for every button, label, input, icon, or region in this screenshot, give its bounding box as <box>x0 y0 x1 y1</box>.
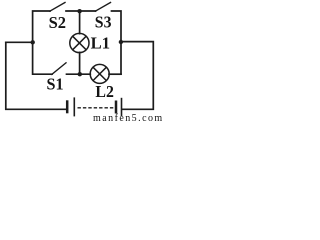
lamp L2 <box>90 64 109 83</box>
svg-text:S1: S1 <box>47 74 64 93</box>
switch S3 blade <box>95 3 110 12</box>
svg-text:manfen5.com: manfen5.com <box>93 113 162 124</box>
wire left outer down and bottom to battery <box>6 42 66 109</box>
wire left branch horizontal <box>6 41 33 43</box>
lamp L1 <box>70 33 89 52</box>
wire right branch from node D to outer right and bottom to battery <box>121 42 153 110</box>
svg-text:S3: S3 <box>95 12 112 32</box>
battery cell 1 long thin plate <box>73 97 75 116</box>
node dot between S2 and S3 <box>77 9 81 13</box>
label S2 <box>49 13 66 32</box>
label L2 <box>95 81 113 101</box>
battery cell 1 short thick plate <box>66 100 69 113</box>
label L1 <box>91 33 110 52</box>
battery cell 2 long thin plate <box>121 98 123 116</box>
wire S1 to lamp L2 <box>67 73 91 75</box>
svg-text:S2: S2 <box>49 13 66 32</box>
wire lamp L1 bottom down to node C <box>79 52 81 74</box>
label S1 <box>47 74 64 93</box>
svg-text:L1: L1 <box>91 33 110 52</box>
battery cell 2 short thick plate <box>115 101 118 114</box>
wire second column down to S1 row <box>33 42 52 74</box>
wire lamp L2 right to right column <box>109 73 121 75</box>
node dot right branch <box>119 40 123 44</box>
battery dashed link <box>78 107 114 109</box>
switch S2 blade <box>50 3 65 12</box>
wire top-left corner and segment to S2 <box>33 11 50 42</box>
node dot left branch <box>31 40 35 44</box>
switch S1 blade <box>52 63 66 75</box>
wire S3 to top-right corner, down right column <box>112 11 122 74</box>
label S3 <box>95 12 112 32</box>
wire S2 to S3 <box>66 10 96 12</box>
node dot S1/L2 row <box>78 72 82 76</box>
svg-text:L2: L2 <box>95 81 113 101</box>
wire node B down to lamp L1 top <box>79 11 81 34</box>
